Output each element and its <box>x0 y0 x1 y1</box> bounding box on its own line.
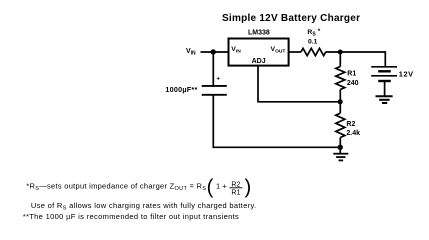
svg-text:+: + <box>216 76 220 83</box>
svg-text:): ) <box>245 176 252 198</box>
svg-text:2.4k: 2.4k <box>346 130 360 137</box>
resistor R2 <box>336 102 345 148</box>
wire bottom rail from capacitor <box>213 95 340 147</box>
svg-text:0.1: 0.1 <box>308 39 318 46</box>
wire rail corner into battery <box>384 51 386 66</box>
svg-text:12V: 12V <box>399 70 414 79</box>
svg-text:*: * <box>318 28 321 35</box>
svg-text:(: ( <box>207 176 214 198</box>
svg-text:1000µF**: 1000µF** <box>165 85 197 94</box>
svg-text:R1: R1 <box>347 71 356 78</box>
svg-text:R2: R2 <box>231 181 240 188</box>
svg-text:*RS—sets output impedance of c: *RS—sets output impedance of charger ZOU… <box>26 182 206 193</box>
svg-text:RS: RS <box>307 29 316 37</box>
svg-text:Use of RS allows low charging: Use of RS allows low charging rates with… <box>31 201 257 212</box>
wire Rs to battery <box>326 51 386 53</box>
svg-text:**The 1000 µF is recommended t: **The 1000 µF is recommended to filter o… <box>23 212 239 221</box>
ground below R2 <box>333 147 348 160</box>
node bottom junction dot <box>338 145 343 150</box>
regulator U1 LM338 box <box>229 39 289 66</box>
svg-text:Simple 12V Battery Charger: Simple 12V Battery Charger <box>222 13 360 24</box>
wire battery to ground <box>384 81 386 96</box>
node output junction dot <box>338 50 343 55</box>
svg-text:ADJ: ADJ <box>252 58 266 65</box>
resistor RS <box>301 48 326 55</box>
node ADJ junction dot <box>338 99 343 104</box>
svg-text:240: 240 <box>347 80 359 87</box>
ground below battery <box>376 96 393 103</box>
svg-text:1 +: 1 + <box>216 181 227 190</box>
capacitor C1 1000uF plates <box>202 86 227 95</box>
wire VOUT to Rs <box>289 51 301 53</box>
svg-text:R1: R1 <box>231 190 240 197</box>
battery BT1 plates <box>371 67 397 81</box>
svg-text:R2: R2 <box>346 121 355 128</box>
svg-text:LM338: LM338 <box>248 29 270 36</box>
wire input node down to capacitor <box>212 52 214 85</box>
resistor R1 <box>336 52 345 102</box>
wire input to regulator <box>201 51 229 53</box>
svg-text:VIN: VIN <box>186 48 196 57</box>
node input junction dot <box>211 49 216 54</box>
wire ADJ pin down and right <box>258 66 340 102</box>
note 1: RS sets output impedance formula <box>26 176 251 198</box>
